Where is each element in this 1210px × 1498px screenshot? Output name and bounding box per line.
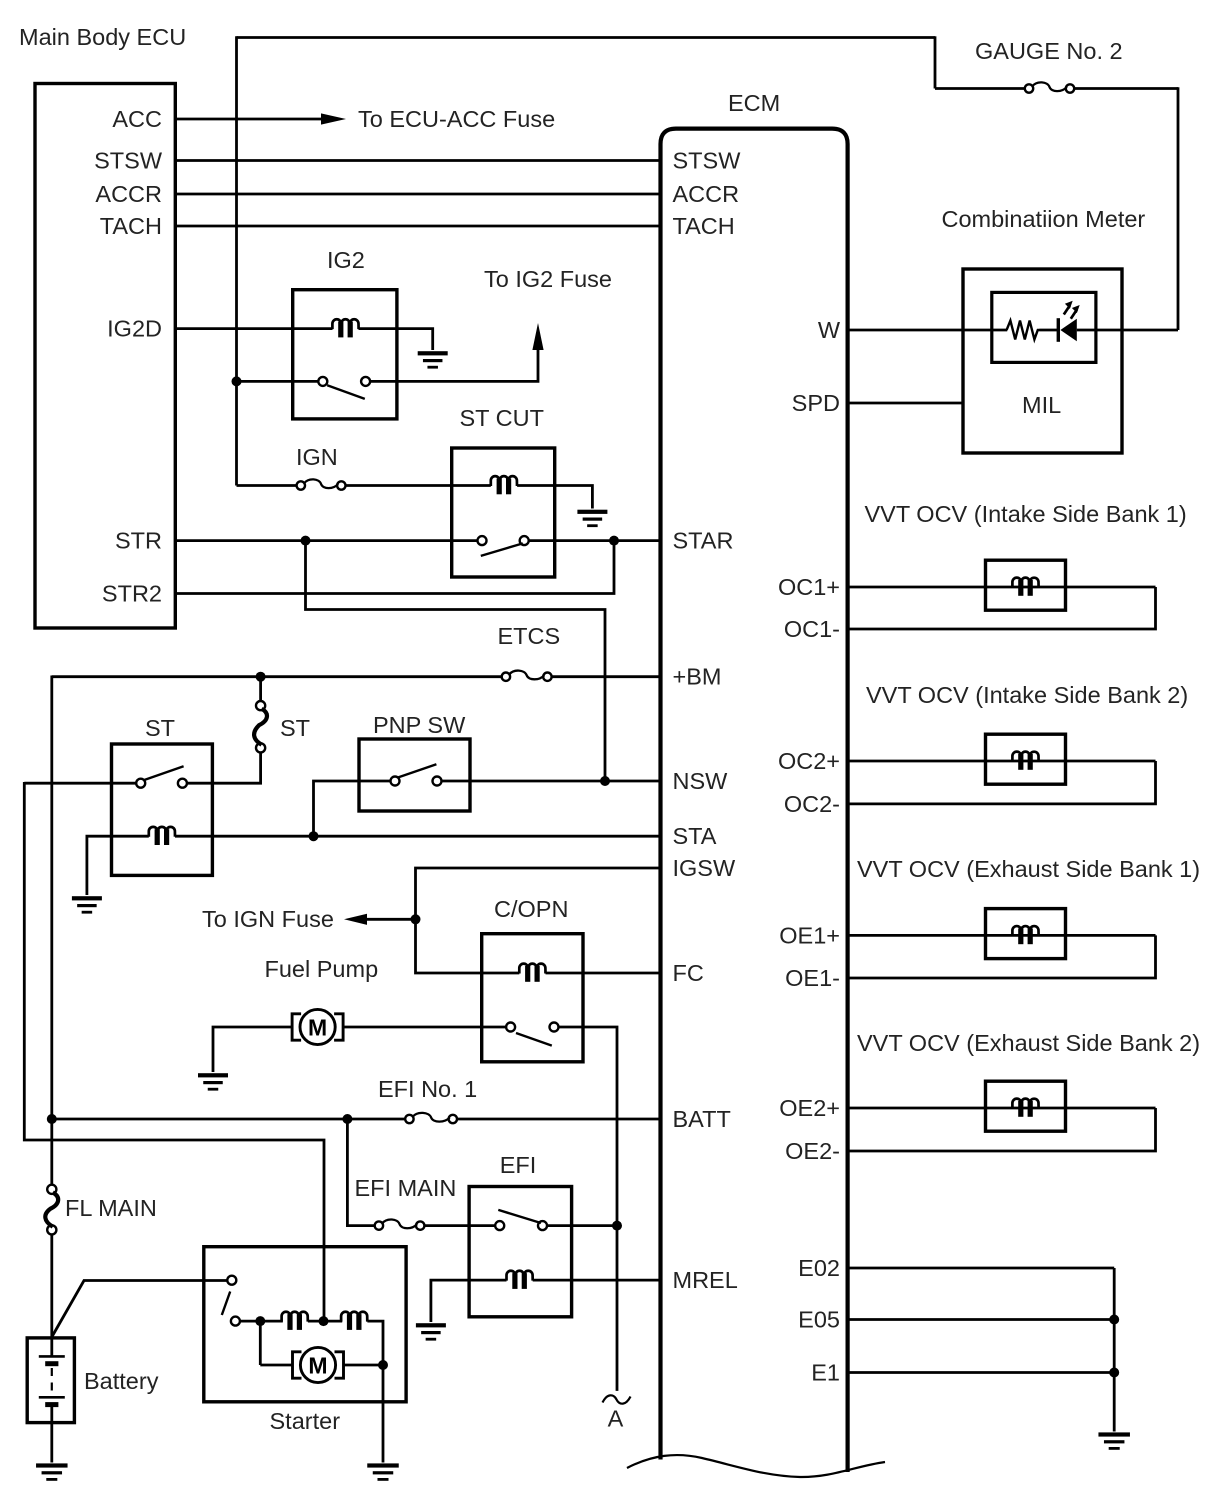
label MIL: [1022, 392, 1061, 418]
starter box: [204, 1247, 406, 1402]
ECM pin label OE1-: [785, 965, 840, 991]
svg-text:GAUGE No. 2: GAUGE No. 2: [975, 38, 1123, 64]
wire STR2: [175, 541, 614, 594]
Main Body ECU box: [35, 84, 175, 629]
junction starter motor-right: [378, 1360, 388, 1370]
solenoid coil 4: [1012, 1099, 1038, 1117]
fuse ETCS: [502, 671, 552, 681]
ECM pin label OE2+: [779, 1095, 840, 1121]
label Fuel Pump: [265, 956, 379, 982]
ECM pin label +BM: [673, 664, 722, 690]
wire E1: [848, 1371, 1115, 1374]
relay coil EFI: [507, 1271, 533, 1289]
ECM pin label OE1+: [779, 922, 840, 948]
wire IG2 coil to ground: [359, 329, 433, 350]
junction STR2 join: [609, 536, 619, 546]
wire EFI MAIN drop: [347, 1119, 374, 1226]
wire vertical ECU-IGN rail: [235, 36, 238, 485]
svg-text:STSW: STSW: [673, 148, 742, 174]
wire OC/OE1+ to solenoid: [848, 586, 1156, 589]
wire solenoid return 3: [848, 935, 1156, 978]
pin label ACCR: [95, 181, 162, 207]
junction EFI MAIN drop: [342, 1114, 352, 1124]
ECM pin label STSW: [673, 148, 742, 174]
wire FC: [546, 972, 661, 975]
fuse GAUGE No. 2: [1025, 82, 1074, 92]
ECM pin label IGSW: [673, 855, 736, 881]
svg-text:E1: E1: [811, 1360, 840, 1386]
wire IG2D to coil: [175, 327, 332, 330]
label FL MAIN: [65, 1195, 157, 1221]
wire right drop to W: [1177, 87, 1180, 330]
left rail from ST contact: [24, 782, 324, 1321]
junction NSW: [600, 776, 610, 786]
svg-text:Fuel Pump: Fuel Pump: [265, 956, 379, 982]
fuse IGN: [297, 479, 346, 489]
wire STSW: [175, 159, 660, 162]
wire BATT right: [457, 1118, 661, 1121]
wire OC/OE4+ to solenoid: [848, 1107, 1156, 1110]
ECM pin label OC2-: [784, 791, 840, 817]
wire IG2 switch left: [237, 380, 319, 383]
label PNP SW: [373, 712, 466, 738]
wire EFI contact to A-rail: [547, 1224, 617, 1227]
svg-text:FC: FC: [673, 960, 704, 986]
label To ECU-ACC Fuse: [358, 106, 555, 132]
relay contact C/OPN: [506, 1023, 558, 1046]
label IGN: [296, 444, 338, 470]
wire IGN fuse to ST CUT coil: [346, 484, 491, 487]
battery box: [27, 1338, 74, 1423]
svg-text:BATT: BATT: [673, 1106, 731, 1132]
VVT OCV solenoid box 4: [986, 1081, 1066, 1131]
svg-text:E02: E02: [798, 1255, 840, 1281]
ECM pin label OE2-: [785, 1138, 840, 1164]
ECM pin label MREL: [673, 1267, 738, 1293]
wire MREL: [533, 1279, 661, 1282]
junction STR tap: [301, 536, 311, 546]
ECM pin label W: [818, 317, 841, 343]
svg-text:IG2D: IG2D: [107, 316, 162, 342]
wire LED to gauge rail: [1077, 329, 1178, 332]
wire fuel pump to contact: [343, 1026, 506, 1029]
MIL lamp box: [992, 292, 1096, 362]
svg-text:To IG2 Fuse: To IG2 Fuse: [484, 266, 612, 292]
battery symbol: [39, 1339, 65, 1423]
wire starter to ground: [382, 1365, 385, 1463]
svg-text:STR2: STR2: [102, 581, 162, 607]
svg-text:STA: STA: [673, 823, 717, 849]
label ST (fusible link): [280, 715, 310, 741]
connector A break symbol: [603, 1395, 631, 1403]
ECM pin label NSW: [673, 768, 729, 794]
ECM pin label OC1+: [778, 574, 840, 600]
relay IG2 box: [293, 290, 397, 419]
relay ST box: [112, 744, 213, 875]
fusible link ST: [254, 701, 267, 753]
junction starter pull-in tap: [319, 1316, 329, 1326]
ECM pin label OC1-: [784, 616, 840, 642]
label GAUGE No. 2: [975, 38, 1123, 64]
svg-text:ETCS: ETCS: [498, 623, 561, 649]
junction starter motor-left tap: [255, 1316, 265, 1326]
wire starter coil to motor-right: [367, 1321, 383, 1365]
relay coil ST: [149, 827, 175, 845]
svg-text:M: M: [308, 1353, 327, 1379]
wire motor left lead: [260, 1364, 292, 1367]
svg-text:M: M: [308, 1015, 327, 1041]
ECM pin label BATT: [673, 1106, 731, 1132]
ECM pin label SPD: [792, 390, 840, 416]
label ST (starter relay): [145, 715, 175, 741]
svg-text:OC1+: OC1+: [778, 574, 840, 600]
relay C/OPN box: [482, 934, 583, 1062]
wire solenoid return 2: [848, 761, 1156, 804]
svg-text:ACCR: ACCR: [95, 181, 162, 207]
label EFI MAIN: [355, 1175, 457, 1201]
svg-text:C/OPN: C/OPN: [494, 896, 568, 922]
svg-text:VVT OCV (Intake Side Bank 1): VVT OCV (Intake Side Bank 1): [865, 501, 1187, 527]
ECM pin label E05: [798, 1307, 840, 1333]
wire battery to ground: [50, 1421, 53, 1463]
arrow to ECU-ACC fuse: [321, 113, 346, 124]
wire W to resistor: [848, 329, 1008, 332]
ground EFI: [416, 1323, 446, 1340]
wire IGN from rail: [237, 484, 297, 487]
wire SPD: [848, 402, 963, 405]
svg-text:ST: ST: [145, 715, 175, 741]
wire STAR: [529, 539, 661, 542]
svg-text:W: W: [818, 317, 841, 343]
arrow to IGN fuse: [344, 914, 367, 925]
label EFI No. 1: [378, 1076, 477, 1102]
wire E ground rail: [1113, 1268, 1116, 1432]
wire ST link upper: [259, 677, 262, 702]
VVT OCV solenoid box 2: [986, 734, 1066, 784]
junction ST link tap: [256, 672, 266, 682]
starter coil 1: [282, 1312, 308, 1330]
switch contact PNP SW: [391, 764, 442, 785]
wire C/OPN contact to A-rail: [558, 1027, 617, 1391]
wire ACC: [175, 118, 321, 121]
svg-text:Battery: Battery: [84, 1368, 159, 1394]
svg-text:+BM: +BM: [673, 664, 722, 690]
ECM box: [661, 129, 848, 1472]
fuse EFI No. 1: [405, 1113, 457, 1123]
label VVT OCV (Exhaust Side Bank 1): [857, 856, 1200, 882]
svg-text:TACH: TACH: [100, 213, 162, 239]
VVT OCV solenoid box 1: [986, 560, 1066, 610]
wire PNP drop: [314, 781, 391, 836]
ground fuel pump: [198, 1073, 228, 1090]
junction IG2 switch tap: [232, 376, 242, 386]
wire OC/OE3+ to solenoid: [848, 934, 1156, 937]
svg-text:Starter: Starter: [270, 1408, 341, 1434]
wire OC/OE2+ to solenoid: [848, 760, 1156, 763]
svg-text:MREL: MREL: [673, 1267, 738, 1293]
wire battery rail upper: [50, 676, 53, 1185]
svg-text:ACCR: ACCR: [673, 181, 740, 207]
ECM pin label E1: [811, 1360, 840, 1386]
wire between starter coils: [308, 1320, 342, 1323]
label VVT OCV (Intake Side Bank 2): [866, 682, 1188, 708]
fuse EFI MAIN: [375, 1219, 425, 1229]
svg-text:OC2-: OC2-: [784, 791, 840, 817]
svg-text:STSW: STSW: [94, 148, 163, 174]
junction E1: [1109, 1368, 1119, 1378]
label EFI: [500, 1152, 537, 1178]
label Battery: [84, 1368, 159, 1394]
pin label STSW: [94, 148, 163, 174]
relay coil IG2: [332, 319, 358, 337]
wire ST contact left: [24, 782, 136, 785]
ECM pin label STA: [673, 823, 717, 849]
svg-text:ACC: ACC: [112, 106, 162, 132]
svg-text:A: A: [608, 1406, 624, 1432]
svg-text:E05: E05: [798, 1307, 840, 1333]
label ECM: [728, 90, 780, 116]
svg-text:Combinatiion Meter: Combinatiion Meter: [942, 206, 1146, 232]
svg-text:STAR: STAR: [673, 528, 734, 554]
wire to IGN fuse arrow: [367, 918, 416, 921]
junction E05: [1109, 1315, 1119, 1325]
wire E02: [848, 1267, 1115, 1270]
wire TACH: [175, 225, 660, 228]
junction IGN-fuse arrow tap: [411, 914, 421, 924]
wire STR to NSW link: [306, 541, 606, 781]
svg-text:IGN: IGN: [296, 444, 338, 470]
svg-text:ST CUT: ST CUT: [460, 405, 544, 431]
svg-text:EFI No. 1: EFI No. 1: [378, 1076, 477, 1102]
relay contact ST CUT: [478, 536, 529, 556]
wire resistor to LED: [1040, 329, 1059, 332]
svg-text:TACH: TACH: [673, 213, 735, 239]
pin label IG2D: [107, 316, 162, 342]
fusible link FL MAIN: [45, 1185, 58, 1235]
label IG2: [327, 247, 365, 273]
wire +BM right segment: [552, 675, 661, 678]
VVT OCV solenoid box 3: [986, 909, 1066, 959]
relay contact ST: [136, 766, 187, 787]
ECM pin label TACH: [673, 213, 735, 239]
wire E05: [848, 1318, 1115, 1321]
ECM pin label ACCR: [673, 181, 740, 207]
svg-text:MIL: MIL: [1022, 392, 1061, 418]
svg-text:EFI: EFI: [500, 1152, 537, 1178]
wire IG2 switch to IG2 fuse arrow: [370, 349, 538, 381]
svg-text:ST: ST: [280, 715, 310, 741]
wire motor right lead: [344, 1364, 384, 1367]
resistor MIL: [1007, 321, 1040, 340]
wire battery positive diagonal: [52, 1281, 227, 1338]
wire solenoid return 4: [848, 1108, 1156, 1151]
svg-text:OE1-: OE1-: [785, 965, 840, 991]
solenoid coil 1: [1012, 578, 1038, 596]
svg-text:SPD: SPD: [792, 390, 840, 416]
svg-text:PNP SW: PNP SW: [373, 712, 466, 738]
arrow to IG2 fuse: [532, 323, 543, 350]
wire STA: [175, 835, 661, 838]
relay EFI box: [469, 1187, 571, 1317]
motor fuel pump: [292, 1009, 343, 1044]
relay coil C/OPN: [519, 964, 545, 982]
svg-text:VVT OCV (Exhaust Side Bank 2): VVT OCV (Exhaust Side Bank 2): [857, 1030, 1200, 1056]
ECM pin label FC: [673, 960, 704, 986]
wire STR left: [175, 539, 477, 542]
ground ST: [72, 896, 102, 913]
relay coil ST CUT: [491, 476, 517, 494]
wire +BM left segment: [52, 675, 502, 678]
junction EFI on A-rail: [612, 1221, 622, 1231]
relay ST CUT box: [452, 448, 555, 577]
label ETCS: [498, 623, 561, 649]
wire ST link to contact: [187, 752, 261, 783]
pin label STR2: [102, 581, 162, 607]
label VVT OCV (Intake Side Bank 1): [865, 501, 1187, 527]
wire GAUGE fuse left: [935, 87, 1025, 90]
wire solenoid return 1: [848, 587, 1156, 629]
combination meter box: [963, 269, 1122, 453]
wire W-to-GAUGE top run: [237, 36, 936, 39]
relay contact EFI: [495, 1210, 547, 1230]
wire IGSW: [416, 868, 661, 973]
ground starter: [367, 1463, 399, 1480]
svg-text:OE1+: OE1+: [779, 922, 840, 948]
label ST CUT: [460, 405, 544, 431]
label Starter: [270, 1408, 341, 1434]
svg-text:IG2: IG2: [327, 247, 365, 273]
ECM pin label OC2+: [778, 748, 840, 774]
label To IGN Fuse: [202, 906, 334, 932]
svg-text:NSW: NSW: [673, 768, 729, 794]
label VVT OCV (Exhaust Side Bank 2): [857, 1030, 1200, 1056]
wire battery rail lower: [50, 1235, 53, 1340]
ground IG2: [418, 351, 448, 368]
svg-text:OE2-: OE2-: [785, 1138, 840, 1164]
label A: [608, 1406, 624, 1432]
motor starter: [293, 1347, 344, 1382]
svg-text:IGSW: IGSW: [673, 855, 736, 881]
wire starter contact to coils: [240, 1320, 283, 1323]
ground ST CUT: [577, 510, 607, 527]
LED MIL: [1057, 301, 1080, 342]
ground battery: [36, 1463, 68, 1480]
ground E02-E05-E1: [1098, 1432, 1130, 1449]
solenoid coil 2: [1012, 752, 1038, 770]
wire GAUGE drop: [934, 36, 937, 88]
wire starter motor-left drop: [259, 1321, 262, 1365]
svg-text:VVT OCV (Intake Side Bank 2): VVT OCV (Intake Side Bank 2): [866, 682, 1188, 708]
junction PNP drop: [309, 831, 319, 841]
pin label STR: [115, 528, 162, 554]
label Combinatiion Meter: [942, 206, 1146, 232]
wire NSW: [442, 780, 661, 783]
label To IG2 Fuse: [484, 266, 612, 292]
svg-text:ECM: ECM: [728, 90, 780, 116]
svg-text:VVT OCV (Exhaust Side Bank 1): VVT OCV (Exhaust Side Bank 1): [857, 856, 1200, 882]
junction BATT left rail: [47, 1114, 57, 1124]
svg-text:To IGN Fuse: To IGN Fuse: [202, 906, 334, 932]
svg-text:Main Body ECU: Main Body ECU: [19, 24, 186, 50]
wire ST coil to ground: [87, 836, 149, 895]
relay contact IG2: [318, 377, 370, 399]
svg-text:STR: STR: [115, 528, 162, 554]
starter coil 2: [341, 1312, 367, 1330]
ECM torn bottom edge: [627, 1455, 885, 1477]
ECM pin label E02: [798, 1255, 840, 1281]
wire GAUGE fuse right: [1074, 87, 1178, 90]
wire EFI coil to ground: [431, 1280, 507, 1322]
label Main Body ECU: [19, 24, 186, 50]
starter switch: [222, 1276, 240, 1326]
svg-text:OC1-: OC1-: [784, 616, 840, 642]
label C/OPN: [494, 896, 568, 922]
wire ST CUT coil to ground: [517, 486, 592, 509]
svg-text:To ECU-ACC Fuse: To ECU-ACC Fuse: [358, 106, 555, 132]
pin label TACH: [100, 213, 162, 239]
svg-text:EFI MAIN: EFI MAIN: [355, 1175, 457, 1201]
svg-text:OC2+: OC2+: [778, 748, 840, 774]
ECM pin label STAR: [673, 528, 734, 554]
switch PNP SW box: [359, 739, 470, 811]
pin label ACC: [112, 106, 162, 132]
solenoid coil 3: [1012, 926, 1038, 944]
svg-text:OE2+: OE2+: [779, 1095, 840, 1121]
wire BATT left: [52, 1118, 406, 1121]
wire ACCR: [175, 193, 660, 196]
svg-text:FL MAIN: FL MAIN: [65, 1195, 157, 1221]
wire EFI MAIN fuse to contact: [424, 1224, 495, 1227]
wire fuel pump to ground: [213, 1027, 292, 1072]
